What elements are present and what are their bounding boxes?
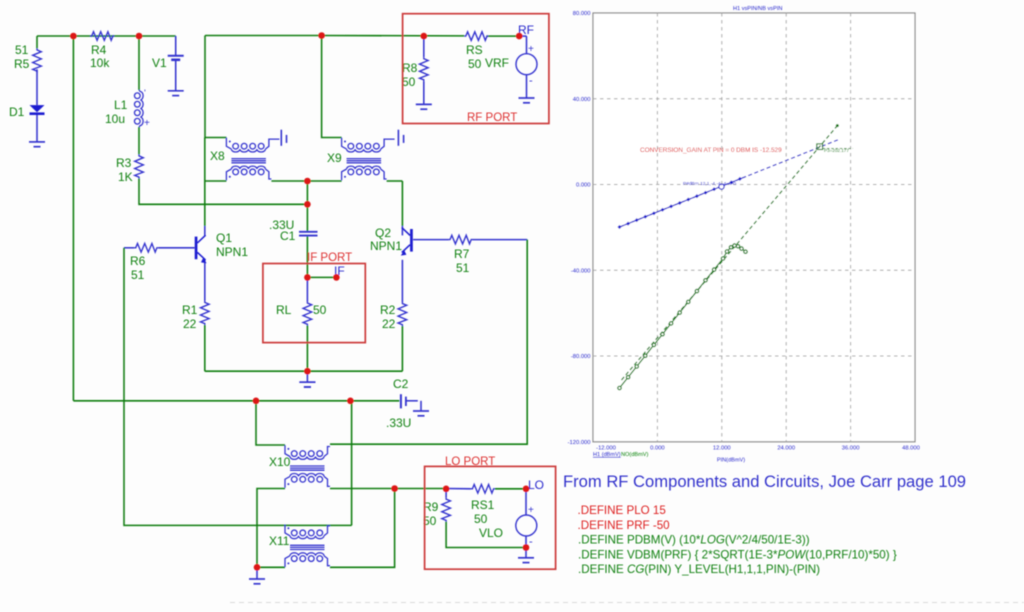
svg-text:.DEFINE CG(PIN) Y_LEVEL(H1,1,: .DEFINE CG(PIN) Y_LEVEL(H1,1,1,PIN)-(PIN…: [578, 563, 820, 576]
svg-text:.33U: .33U: [386, 416, 411, 430]
svg-text:.DEFINE PRF -50: .DEFINE PRF -50: [578, 519, 670, 532]
wire ground rail: [205, 370, 403, 372]
plot gridlines: [593, 13, 915, 442]
svg-text:51: 51: [15, 43, 29, 57]
source VLO: [516, 515, 537, 536]
resistor R9: [442, 498, 451, 522]
svg-text:50: 50: [313, 303, 327, 317]
wire X11 secondary right: [330, 489, 395, 568]
wire RF to VRF: [519, 35, 526, 37]
wire X8-X9 secondary link: [271, 180, 341, 182]
wire X11 secondary left: [257, 566, 285, 568]
svg-text:R8: R8: [402, 61, 418, 75]
wire VRF bottom lead: [526, 75, 528, 98]
node IF: [304, 274, 311, 281]
svg-text:RL: RL: [276, 303, 292, 317]
wire IF node to IF pin: [307, 276, 336, 278]
curve H1 blue dashed: [620, 139, 841, 227]
svg-text:RF PORT: RF PORT: [467, 112, 517, 124]
svg-text:51: 51: [456, 261, 470, 275]
wire X10 secondary left down: [257, 489, 285, 568]
svg-text:R2: R2: [380, 303, 396, 317]
wire RS1 to LO pin: [495, 488, 526, 490]
LO PORT box: [425, 466, 556, 569]
svg-text:-80.000: -80.000: [571, 354, 591, 360]
bottom dashed separator: [230, 602, 1024, 604]
svg-text:+: +: [528, 505, 534, 516]
wire VRF top lead: [526, 36, 528, 54]
ground below VLO: [518, 558, 534, 563]
svg-text:L1: L1: [114, 98, 128, 112]
svg-text:50: 50: [468, 57, 482, 71]
wire R5 top lead: [36, 36, 38, 48]
node ground rail: [304, 368, 311, 375]
open stub at X8: [281, 130, 286, 146]
svg-text:RS1: RS1: [471, 498, 495, 512]
transformer X10: [285, 445, 330, 488]
wire to C1: [306, 204, 308, 231]
wire node to node: [306, 181, 308, 204]
svg-text:P#dBm 12,1,-4,-4,-4=4•0: P#dBm 12,1,-4,-4,-4=4•0: [683, 181, 736, 187]
wire R2 to ground rail: [401, 326, 403, 371]
wire to X10 primary left: [256, 401, 285, 445]
node R8 top: [421, 33, 428, 40]
open stub at X9: [398, 130, 403, 146]
wire Q2 collector lead: [401, 226, 403, 235]
wire C1 to IF node: [306, 236, 308, 278]
curve NO solid with markers: [618, 244, 747, 390]
svg-text:24.000: 24.000: [777, 446, 795, 452]
node X11 ground: [254, 564, 261, 571]
wire down to X11 primary: [351, 401, 353, 526]
resistor R3: [135, 154, 144, 178]
svg-text:Q2: Q2: [375, 226, 391, 240]
svg-text:R6: R6: [130, 254, 146, 268]
wire X8 secondary left horiz: [205, 180, 227, 182]
capacitor C2: [401, 394, 406, 408]
battery V1: [168, 56, 184, 60]
svg-text:-120.000: -120.000: [568, 440, 591, 446]
ground below VRF: [519, 98, 535, 103]
svg-text:CONVERSION_GAIN AT PIN = 0 DBM: CONVERSION_GAIN AT PIN = 0 DBM IS -12.52…: [640, 147, 782, 154]
svg-text:0.000: 0.000: [650, 446, 665, 452]
transformer X9: [342, 138, 395, 181]
wire R6 down to X11 primary: [124, 248, 352, 526]
RF PORT box: [403, 14, 549, 124]
svg-text:+: +: [144, 118, 150, 129]
svg-text:80.000: 80.000: [573, 11, 591, 17]
resistor R6: [134, 244, 158, 253]
wire bottom rail to C2: [73, 400, 399, 402]
wire X9 secondary right horiz: [387, 180, 403, 182]
svg-text:From RF Components and Circuit: From RF Components and Circuits, Joe Car…: [563, 472, 966, 491]
wire RL top lead: [306, 277, 308, 301]
x axis labels: [596, 446, 920, 452]
wire to Q2 collector: [401, 181, 403, 226]
svg-text:-: -: [529, 75, 533, 87]
wire Q1 emitter to R1: [204, 260, 206, 301]
wire VLO top lead: [525, 489, 527, 515]
svg-text:0.000: 0.000: [576, 183, 591, 189]
node bottom rail X10: [253, 398, 260, 405]
diode D1: [30, 105, 45, 115]
wire R8 top lead: [423, 36, 425, 57]
node R3-C1: [304, 201, 311, 208]
node at R4 left: [70, 33, 77, 40]
svg-text:51: 51: [131, 268, 145, 282]
wire R7 down to X10 primary right: [330, 240, 527, 445]
ground below X11: [249, 579, 265, 584]
svg-text:X11: X11: [269, 534, 290, 548]
svg-text:NPN1: NPN1: [370, 239, 402, 253]
svg-text:.DEFINE VDBM(PRF) { 2*SQRT(1E-: .DEFINE VDBM(PRF) { 2*SQRT(1E-3*POW(10,P…: [578, 548, 897, 561]
node IF pin: [333, 274, 340, 281]
resistor R7: [449, 235, 473, 244]
svg-text:R1: R1: [182, 303, 198, 317]
wire Q1 collector lead: [204, 226, 206, 235]
svg-text:.DEFINE PLO 15: .DEFINE PLO 15: [578, 504, 666, 517]
wire to X8 primary left: [205, 36, 226, 138]
wire R7 right lead: [473, 239, 528, 241]
svg-text:.DEFINE PDBM(V) (10*LOG(V^2/4/: .DEFINE PDBM(V) (10*LOG(V^2/4/50/1E-3)): [578, 534, 810, 547]
wire ground stem: [306, 371, 308, 382]
wire top-left rail: [37, 35, 176, 37]
node at R4 right: [136, 33, 143, 40]
svg-text:10u: 10u: [105, 112, 125, 126]
curve H1 solid with markers: [618, 177, 746, 229]
resistor RL: [303, 302, 312, 326]
svg-text:P3=202.177: P3=202.177: [824, 148, 849, 153]
ground below RL: [299, 382, 315, 387]
svg-text:36.000: 36.000: [842, 446, 860, 452]
resistor R4: [90, 32, 114, 41]
plot frame: [593, 13, 915, 442]
svg-text:X10: X10: [269, 455, 291, 469]
svg-text:H1 vsPIN/NB vsPIN: H1 vsPIN/NB vsPIN: [733, 6, 782, 12]
svg-text:-12.000: -12.000: [596, 446, 616, 452]
node X8-X9 secondary: [304, 178, 311, 185]
capacitor C1: [299, 232, 318, 236]
ground below V1: [168, 91, 184, 96]
node top rail X9: [318, 32, 325, 39]
wire Q2 base to R7: [413, 239, 448, 241]
wire top rail to RS: [322, 35, 465, 37]
svg-text:50: 50: [474, 512, 488, 526]
wire C2 ground stem: [420, 401, 422, 411]
svg-text:Q1: Q1: [216, 231, 232, 245]
resistor R8: [420, 57, 429, 81]
svg-text:40.000: 40.000: [573, 97, 591, 103]
svg-text:50: 50: [402, 75, 416, 89]
node bottom rail C2: [347, 398, 354, 405]
svg-text:1K: 1K: [118, 170, 133, 184]
resistor R1: [201, 301, 210, 325]
resistor RS1: [471, 485, 495, 494]
wire D1 to ground: [36, 115, 38, 142]
wire RS to RF node: [486, 35, 519, 37]
wire RL to ground rail: [306, 326, 308, 372]
source VRF: [516, 54, 537, 75]
svg-text:X9: X9: [327, 151, 342, 165]
wire V1 top lead: [175, 36, 177, 56]
svg-text:R3: R3: [116, 156, 132, 170]
svg-text:+: +: [528, 44, 534, 55]
resistor R5: [33, 48, 42, 72]
node RF pin: [516, 33, 523, 40]
curve NO green dashed: [622, 126, 838, 381]
svg-text:H1 (dBmV): H1 (dBmV): [593, 452, 621, 458]
svg-text:V1: V1: [152, 56, 167, 70]
wire L1 to R3: [138, 127, 140, 154]
svg-text:VRF: VRF: [485, 56, 509, 70]
wire R6 to Q1 base: [158, 247, 194, 249]
transformer X8: [226, 138, 279, 181]
node VLO bottom: [523, 544, 530, 551]
inductor L1: [134, 90, 143, 127]
transistor Q1: [195, 235, 207, 263]
svg-text:NPN1: NPN1: [216, 245, 248, 259]
wire RS1 left lead: [446, 488, 471, 490]
wire V+ to L1: [138, 36, 140, 90]
svg-text:R4: R4: [91, 43, 107, 57]
wire to X9 primary left: [322, 36, 342, 138]
ground right of C2: [413, 411, 429, 416]
svg-text:48.000: 48.000: [902, 446, 920, 452]
wire C2 to ground: [406, 400, 418, 402]
node X10-X11 secondary: [391, 485, 398, 492]
svg-text:D1: D1: [9, 105, 25, 119]
wire VLO ground stem: [525, 548, 527, 558]
wire R9 to VLO bottom: [446, 522, 526, 548]
svg-text:22: 22: [382, 317, 396, 331]
wire X11 ground stem: [256, 567, 258, 579]
svg-text:VLO: VLO: [479, 526, 503, 540]
svg-text:LO PORT: LO PORT: [445, 456, 495, 468]
wire R9 top lead: [445, 489, 447, 498]
svg-text:R5: R5: [14, 57, 30, 71]
svg-text:PIN(dBmV): PIN(dBmV): [717, 458, 745, 464]
svg-text:LO: LO: [528, 478, 544, 492]
IF PORT box: [263, 264, 365, 343]
y axis labels: [568, 11, 591, 446]
wire VLO bottom lead: [525, 536, 527, 547]
svg-text:-40.000: -40.000: [571, 268, 591, 274]
ground below R8: [416, 104, 432, 109]
svg-text:IF PORT: IF PORT: [307, 252, 352, 264]
wire to Q1 collector: [204, 181, 206, 226]
wire V1 to ground: [175, 59, 177, 90]
node R9 top: [443, 486, 450, 493]
wire X8 secondary left: [204, 138, 206, 182]
svg-text:X8: X8: [210, 149, 225, 163]
wire R6 left lead: [124, 247, 134, 249]
transformer X11: [285, 525, 330, 568]
ground at IF rail: [299, 382, 315, 387]
svg-text:NO(dBmV): NO(dBmV): [621, 452, 648, 458]
transistor Q2: [401, 228, 413, 256]
resistor RS: [464, 32, 488, 41]
svg-text:': ': [144, 88, 146, 98]
wire R3 to node C1: [139, 178, 307, 204]
ground below D1: [29, 142, 45, 147]
svg-text:RS: RS: [466, 43, 483, 57]
wire R5 to D1: [36, 69, 38, 105]
wire left vertical: [72, 36, 74, 401]
wire R8 bottom lead: [423, 81, 425, 104]
svg-text:10k: 10k: [90, 56, 110, 70]
wire R1 to ground rail: [204, 325, 206, 371]
wire top rail: [205, 35, 322, 37]
IP3 intercept marker: [817, 144, 823, 150]
svg-text:R7: R7: [454, 247, 470, 261]
svg-text:12.000: 12.000: [713, 446, 731, 452]
svg-text:22: 22: [183, 317, 197, 331]
wire Q2 emitter to R2: [401, 260, 403, 302]
svg-text:-: -: [529, 536, 533, 548]
svg-text:C2: C2: [393, 377, 409, 391]
node LO pin: [523, 486, 530, 493]
resistor R2: [398, 302, 407, 326]
svg-text:C1: C1: [280, 229, 296, 243]
wire X10 secondary to LO port: [330, 488, 446, 490]
